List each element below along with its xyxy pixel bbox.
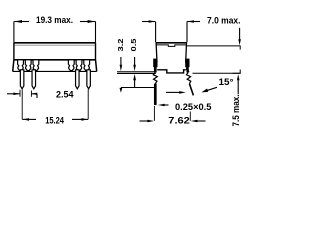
dimension 7.62 right outside arrow	[191, 120, 206, 123]
extension line right of 19.3	[95, 22, 97, 43]
front view right end wall	[96, 60, 97, 72]
dimension 3.2 lower arrow	[120, 88, 123, 93]
side view left pin shoulder	[153, 59, 157, 68]
dimension 15.24 right extension line	[87, 90, 89, 120]
extension line left of 7.0	[155, 22, 157, 43]
svg-text:15.24: 15.24	[45, 114, 64, 125]
pin lead 3 front (long)	[76, 70, 80, 89]
svg-text:7.5 max.: 7.5 max.	[231, 95, 241, 127]
pin lead 2 front (long)	[32, 70, 36, 89]
corner stub below top extension line	[239, 46, 241, 50]
side view right pin bend segment	[186, 70, 189, 73]
side view right pin shoulder	[185, 59, 189, 68]
svg-text:7.62: 7.62	[168, 114, 190, 125]
pin tip reference line	[121, 87, 155, 89]
dimension 0.5 lower arrow with stem	[133, 74, 136, 87]
dimension 15.24 right arrow	[72, 118, 88, 121]
svg-text:0.5: 0.5	[129, 39, 138, 52]
extension line left of 19.3	[13, 22, 15, 43]
svg-text:7.0 max.: 7.0 max.	[207, 16, 241, 27]
dimension 7.5 max. top arrow pointing down	[238, 28, 241, 46]
front view body outline	[14, 43, 96, 60]
pin shoulder 3 front	[33, 60, 39, 71]
side view right pin lower slanted segment	[189, 84, 193, 96]
dimension 15.24 left extension line	[21, 90, 23, 120]
dimension 2.54 left arrow	[7, 90, 20, 97]
side view left wall	[155, 43, 158, 63]
pin lead 4 front (long)	[87, 70, 91, 89]
dimension 7.0 max. right outside arrow	[187, 20, 200, 23]
side view left pin upper segment	[154, 62, 157, 73]
front view left end wall	[13, 60, 14, 72]
front view base bottom line	[13, 70, 97, 72]
side view right pin upper segment	[186, 62, 189, 70]
svg-text:3.2: 3.2	[116, 39, 125, 52]
dimension 0.25x0.5 upper arrow pointing right	[166, 91, 186, 94]
pin shoulder 5 front	[76, 60, 82, 71]
dimension 19.3 max. dim line left segment with arrow	[14, 20, 29, 23]
dimension 0.25x0.5 lower arrow pointing left	[158, 104, 169, 107]
body top extension line to the right	[187, 45, 241, 47]
dimension 7.62 left outside arrow	[140, 120, 155, 123]
pin shoulder 6 front	[84, 60, 90, 71]
svg-text:19.3 max.: 19.3 max.	[36, 15, 73, 26]
dimension 2.54 right arrow with tail corner	[31, 91, 37, 99]
dimension 3.2 upper arrow line	[120, 57, 123, 71]
seating plane upper line	[117, 71, 156, 73]
dimension 7.62 right extension line	[189, 112, 191, 121]
dimension 7.0 max. left outside arrow	[142, 20, 155, 23]
dimension 0.5 upper arrow line	[133, 57, 136, 71]
svg-text:0.25×0.5: 0.25×0.5	[175, 101, 211, 112]
side view bottom profile with center step	[157, 70, 186, 73]
pin lead 1 front (long)	[20, 70, 24, 89]
pin shoulder 1 front	[18, 60, 24, 71]
side view right wall	[185, 43, 188, 63]
pin shoulder 2 front	[25, 60, 31, 71]
seating plane lower line	[117, 73, 156, 75]
svg-text:2.54: 2.54	[56, 88, 74, 99]
side view left pin break zigzag	[153, 73, 157, 84]
svg-text:15°: 15°	[219, 76, 234, 87]
dimension 7.62 left extension line	[153, 106, 155, 121]
extension line right of 7.0	[186, 22, 188, 43]
side view body top	[156, 42, 187, 44]
side view right pin break zigzag	[186, 73, 190, 84]
corner stub above seating extension line	[239, 70, 241, 74]
dimension 7.5 max. bottom arrow pointing up	[237, 74, 240, 94]
side view lid line with notch	[157, 45, 186, 47]
dimension 15.24 left arrow	[22, 118, 36, 121]
label 15 degrees leader arrow	[201, 87, 217, 92]
dimension 19.3 max. dim line right segment with arrow	[80, 20, 95, 23]
seating line right of side view	[193, 72, 241, 74]
seating plane short extension at right	[233, 72, 241, 74]
side view left pin lower segment	[154, 84, 157, 106]
pin shoulder 4 front	[68, 60, 74, 71]
